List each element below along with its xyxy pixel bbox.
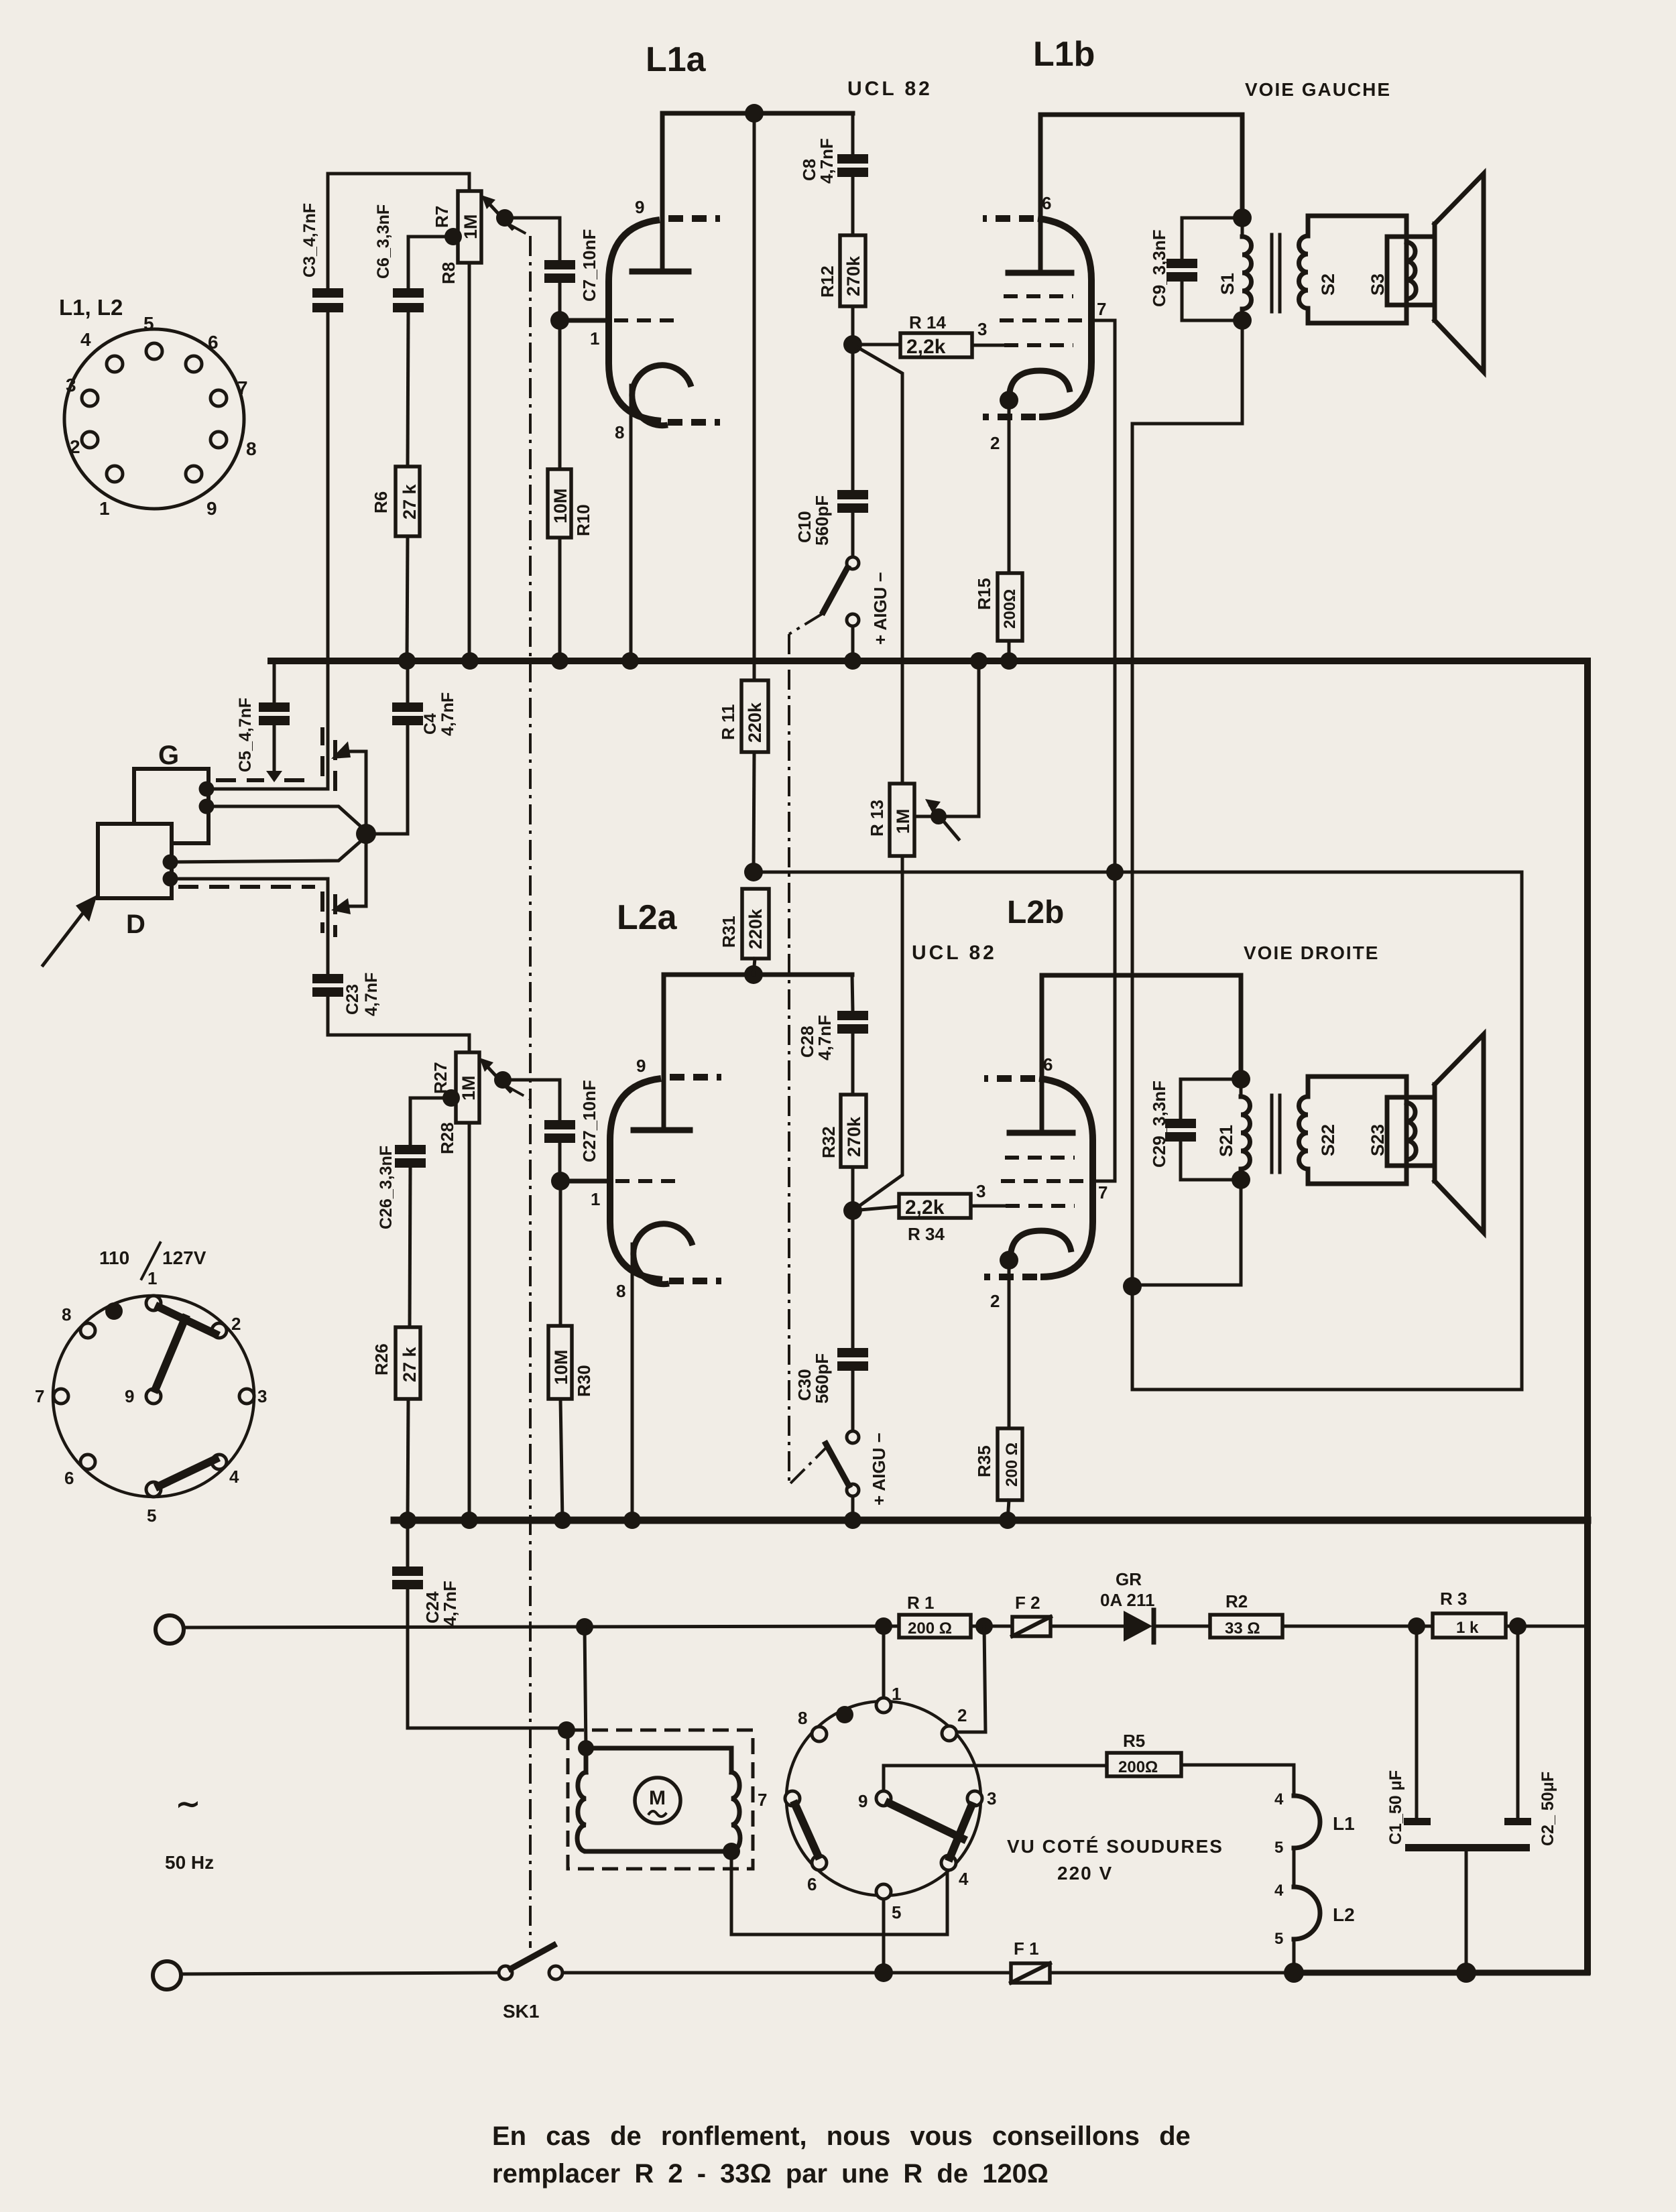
winding S23 — [1385, 1097, 1390, 1166]
svg-text:1: 1 — [590, 328, 599, 349]
svg-text:7: 7 — [1097, 299, 1106, 319]
svg-text:6: 6 — [1042, 193, 1051, 213]
wire pin7 screen line (to y1301 and L2b pin7) — [1091, 320, 1115, 1181]
capacitor C4 — [392, 702, 423, 712]
node L2a plate wire / R31 — [744, 965, 763, 984]
diode GR OA211 — [1124, 1611, 1152, 1642]
wire wiper to C7 — [505, 218, 560, 260]
svg-text:8: 8 — [798, 1708, 807, 1728]
node R32/R34 junction — [843, 1201, 862, 1220]
wire R14 to pin3 L1b — [972, 344, 1004, 347]
capacitor C1 50uF — [1415, 1626, 1419, 1818]
node C1 top — [1408, 1617, 1425, 1635]
svg-text:7: 7 — [758, 1790, 767, 1810]
wire C23 line (D to C23) — [326, 879, 330, 974]
switch SK1 — [499, 1966, 512, 1979]
wire D pin a to fork — [170, 837, 366, 862]
svg-text:4: 4 — [959, 1869, 969, 1889]
capacitor C8 — [851, 113, 855, 154]
resistor R11 220k — [741, 680, 768, 752]
motor shield dashed box — [568, 1730, 753, 1869]
wire D pin b to C23 line — [170, 877, 328, 881]
svg-text:4,7nF: 4,7nF — [438, 692, 457, 736]
cathode L1b — [1010, 371, 1070, 392]
svg-text:1: 1 — [147, 1268, 157, 1288]
svg-text:6: 6 — [208, 332, 219, 353]
wire mains lower to SK1 — [181, 1973, 499, 1974]
socket 110/127V — [35, 1268, 267, 1526]
transformer core (gauche) — [1270, 235, 1274, 312]
node plate wire junction — [745, 104, 764, 123]
svg-text:R31: R31 — [719, 916, 739, 948]
node fork junction — [356, 824, 376, 844]
svg-text:5: 5 — [892, 1902, 901, 1922]
svg-text:R6: R6 — [371, 491, 391, 513]
node pin7 line on feedback rail — [1106, 863, 1124, 881]
svg-text:110: 110 — [99, 1247, 129, 1268]
svg-text:1M: 1M — [459, 1075, 479, 1101]
svg-text:G: G — [158, 741, 179, 770]
svg-text:C1_50 μF: C1_50 μF — [1386, 1770, 1405, 1845]
arrow to jack D — [43, 908, 87, 965]
svg-text:C3_4,7nF: C3_4,7nF — [300, 203, 319, 278]
svg-text:+ AIGU −: + AIGU − — [869, 1432, 889, 1506]
svg-text:10M: 10M — [550, 488, 571, 524]
svg-text:5: 5 — [143, 313, 154, 334]
wire tap to C6 — [408, 237, 453, 288]
node cathode L2b — [1000, 1251, 1018, 1270]
wire C6 to R6 — [408, 312, 408, 467]
svg-text:C2_ 50μF: C2_ 50μF — [1539, 1772, 1557, 1846]
selector contact arrow (upper) — [331, 741, 351, 759]
wire mains upper — [184, 1626, 899, 1627]
node G pin a — [199, 782, 215, 797]
svg-text:10M: 10M — [551, 1349, 571, 1385]
svg-text:R5: R5 — [1123, 1731, 1145, 1751]
resistor R35 200ohm — [1008, 1260, 1011, 1428]
bus junction dots lower — [399, 1512, 416, 1529]
wire L2b plate top — [1042, 975, 1241, 1133]
wire upper contact to fork — [344, 751, 366, 834]
svg-text:remplacer R 2 - 33Ω par une R: remplacer R 2 - 33Ω par une R de 120Ω — [492, 2159, 1049, 2189]
cathode L1a — [632, 365, 691, 426]
potentiometer R27/R28 1M — [468, 1123, 471, 1520]
svg-text:220k: 220k — [745, 908, 766, 949]
svg-text:9: 9 — [858, 1791, 867, 1811]
wire R11 from plate junction (crosses bus) — [753, 113, 756, 680]
wire junction diagonal to R13 (crosses bus) — [853, 345, 902, 784]
socket 220V — [758, 1684, 996, 1922]
C1/C2 common plate — [1405, 1844, 1530, 1851]
node motor feed — [576, 1618, 593, 1636]
svg-text:4,7nF: 4,7nF — [817, 138, 837, 184]
svg-text:SK1: SK1 — [503, 2001, 539, 2022]
primary winding S21 — [1240, 1079, 1243, 1097]
node R11/R31 tap — [744, 863, 763, 881]
primary winding S1 — [1241, 218, 1244, 237]
index dot — [836, 1706, 853, 1723]
node pin1 grid L1a — [550, 311, 569, 330]
wiper arrow R7 — [487, 201, 512, 229]
svg-text:R 1: R 1 — [907, 1593, 934, 1613]
svg-text:L2: L2 — [1333, 1904, 1355, 1925]
node D pin a — [163, 855, 178, 870]
capacitor C23 — [312, 974, 343, 983]
motor winding right — [731, 1772, 740, 1851]
resistor R1 200ohm — [899, 1615, 971, 1638]
node secondaries common — [1123, 1277, 1142, 1296]
capacitor C3 — [312, 288, 343, 298]
input jack G — [134, 769, 208, 843]
svg-text:4,7nF: 4,7nF — [362, 973, 381, 1016]
wire pin9 to R5 — [884, 1766, 1107, 1791]
wire L1b plate top — [1040, 115, 1242, 273]
svg-text:5: 5 — [147, 1506, 156, 1526]
plate L2a — [634, 1127, 690, 1133]
svg-text:560pF: 560pF — [812, 495, 832, 546]
svg-text:27 k: 27 k — [400, 483, 420, 519]
svg-text:C27_10nF: C27_10nF — [579, 1080, 599, 1162]
wire C3 to R7 top — [328, 174, 469, 191]
capacitor C29 3,3nF — [1181, 1079, 1241, 1119]
svg-text:C5_4,7nF: C5_4,7nF — [236, 698, 255, 772]
svg-text:R 14: R 14 — [909, 312, 946, 332]
svg-text:2: 2 — [990, 433, 1000, 453]
wire junction diagonal to R13 line — [853, 872, 902, 1211]
svg-text:∼: ∼ — [176, 1788, 200, 1821]
capacitor C6 — [393, 288, 424, 298]
svg-text:1: 1 — [99, 498, 110, 519]
svg-text:R32: R32 — [819, 1126, 839, 1158]
node S21 top — [1232, 1070, 1250, 1089]
svg-text:UCL 82: UCL 82 — [847, 78, 933, 100]
svg-text:1M: 1M — [893, 808, 913, 834]
svg-text:8: 8 — [246, 438, 257, 459]
node D pin b — [163, 871, 178, 887]
svg-text:2: 2 — [990, 1291, 1000, 1311]
rotor straps 1-2-9 and 5-4 — [159, 1307, 215, 1334]
svg-text:R8: R8 — [438, 262, 459, 284]
choke L1 — [1294, 1796, 1320, 1848]
capacitor C26 — [395, 1145, 426, 1154]
wire motor feed down — [585, 1627, 586, 1748]
svg-text:R2: R2 — [1225, 1591, 1248, 1611]
wire pin5 down — [882, 1899, 886, 1973]
capacitor C10 560pF — [837, 490, 868, 499]
svg-text:5: 5 — [1274, 1930, 1283, 1948]
svg-text:VU COTÉ SOUDURES: VU COTÉ SOUDURES — [1007, 1836, 1223, 1857]
resistor R14 2,2k — [900, 333, 972, 357]
bus junction dots upper — [398, 652, 416, 670]
mains input terminal (upper) — [156, 1615, 184, 1644]
node pin5 / SK1 wire — [874, 1963, 893, 1982]
svg-text:3: 3 — [987, 1788, 996, 1808]
bottom thick wire — [1294, 1970, 1588, 1976]
svg-text:R28: R28 — [437, 1122, 457, 1154]
node R27 tap — [442, 1089, 460, 1107]
wire motor to pin4 — [731, 1851, 947, 1934]
svg-text:7: 7 — [35, 1386, 44, 1406]
wire L2a plate top — [664, 975, 852, 1130]
wire G pin b to fork — [206, 806, 366, 831]
capacitor C28 — [852, 975, 853, 1011]
svg-text:2: 2 — [957, 1705, 967, 1725]
svg-text:1: 1 — [892, 1684, 901, 1704]
svg-text:R10: R10 — [573, 504, 593, 536]
svg-text:R 11: R 11 — [718, 704, 738, 741]
svg-text:En cas de ronflement, nous vou: En cas de ronflement, nous vous conseill… — [492, 2122, 1191, 2151]
wire pin1 up — [882, 1626, 886, 1698]
svg-text:9: 9 — [635, 197, 644, 217]
svg-text:6: 6 — [807, 1874, 817, 1894]
resistor R15 200ohm — [1008, 400, 1011, 573]
plate L2b — [1010, 1130, 1073, 1136]
svg-text:R 13: R 13 — [867, 800, 887, 837]
capacitor C7 — [544, 260, 575, 269]
svg-text:4: 4 — [229, 1467, 239, 1487]
wiper arrow R27 — [485, 1064, 510, 1091]
svg-text:200Ω: 200Ω — [1118, 1758, 1158, 1776]
svg-text:S3: S3 — [1368, 273, 1388, 296]
svg-text:C6_3,3nF: C6_3,3nF — [374, 204, 393, 279]
wire cathode L2a to bus — [631, 1244, 634, 1520]
wiper R13 — [914, 661, 979, 816]
svg-text:3: 3 — [66, 375, 76, 395]
svg-text:R15: R15 — [974, 578, 994, 610]
node S1 top — [1233, 208, 1252, 227]
secondary winding S2 + box — [1308, 216, 1406, 323]
node pin1 grid L2a — [551, 1172, 570, 1190]
svg-text:M: M — [649, 1787, 666, 1809]
svg-text:C7_10nF: C7_10nF — [579, 229, 599, 302]
wire R5 to chokes — [1181, 1765, 1294, 1796]
right bus vertical — [1584, 661, 1591, 1971]
svg-text:3: 3 — [257, 1386, 267, 1406]
node chokes to bottom wire — [1284, 1963, 1304, 1983]
svg-text:C29_3,3nF: C29_3,3nF — [1149, 1081, 1169, 1168]
svg-text:R12: R12 — [817, 265, 837, 298]
selector contact arrow (lower) — [331, 898, 351, 914]
switch AIGU (upper) — [847, 557, 859, 569]
envelope L2b — [1039, 1079, 1093, 1277]
svg-text:5: 5 — [1274, 1839, 1283, 1857]
svg-text:560pF: 560pF — [812, 1353, 832, 1404]
resistor R31 220k — [742, 889, 769, 959]
wire L1a plate top — [662, 113, 853, 271]
cathode L2a — [634, 1224, 693, 1284]
grids L2b — [1005, 1156, 1075, 1160]
node R12/R14 junction — [843, 335, 862, 354]
svg-text:L1b: L1b — [1033, 35, 1095, 74]
svg-text:127V: 127V — [162, 1247, 206, 1268]
svg-text:4,7nF: 4,7nF — [440, 1581, 460, 1626]
fuse F1 — [1011, 1963, 1050, 1983]
wire SK1 to F1 — [562, 1971, 1011, 1975]
capacitor C24 — [406, 1520, 410, 1566]
svg-text:7: 7 — [1098, 1182, 1108, 1203]
wire R34 to pin3 L2b — [971, 1205, 1006, 1208]
resistor R6 27k — [396, 467, 420, 536]
svg-text:C26_3,3nF: C26_3,3nF — [377, 1146, 396, 1229]
svg-text:200 Ω: 200 Ω — [1003, 1442, 1021, 1487]
wire S21 bottom to common node — [1132, 1180, 1241, 1285]
motor M — [635, 1778, 680, 1823]
svg-text:2: 2 — [231, 1314, 241, 1334]
svg-text:L1, L2: L1, L2 — [59, 295, 123, 320]
wire R6 to bus — [407, 536, 408, 661]
node R7 wiper — [496, 209, 514, 227]
svg-text:R27: R27 — [430, 1062, 451, 1094]
svg-text:27 k: 27 k — [400, 1346, 420, 1382]
ganged-control link R7 — [508, 224, 530, 236]
svg-text:C23: C23 — [343, 984, 362, 1015]
resistor R34 2,2k — [899, 1194, 971, 1218]
wire common plate to bottom — [1465, 1851, 1468, 1973]
svg-text:S2: S2 — [1318, 273, 1338, 296]
wire C3 line (G to C3, crosses bus) — [326, 312, 330, 789]
svg-text:UCL 82: UCL 82 — [912, 942, 997, 964]
wire pin7 L2b — [1093, 1180, 1115, 1183]
wire junction down to C30 — [851, 1211, 855, 1348]
svg-text:S1: S1 — [1217, 273, 1238, 295]
capacitor C27 — [544, 1120, 575, 1129]
loudspeaker (voie gauche) — [1433, 224, 1437, 320]
node R1 left / pin1 — [875, 1617, 892, 1635]
svg-text:8: 8 — [615, 422, 624, 442]
wire pin2 up — [957, 1626, 985, 1732]
node motor winding top — [578, 1740, 594, 1756]
motor winding left — [577, 1772, 586, 1851]
resistor R26 27k — [396, 1327, 420, 1399]
svg-text:R35: R35 — [974, 1445, 994, 1477]
wire grid L1a — [560, 318, 607, 323]
potentiometer R7/R8 1M — [468, 263, 471, 661]
svg-text:2,2k: 2,2k — [906, 336, 946, 358]
wire feedback rail y1301 — [754, 872, 1522, 1390]
svg-text:C4: C4 — [421, 713, 440, 735]
node R1 right / pin2 — [975, 1617, 993, 1635]
svg-text:2: 2 — [70, 436, 80, 457]
svg-text:9: 9 — [125, 1386, 134, 1406]
resistor R32 270k — [841, 1095, 866, 1167]
grids L1b — [1004, 294, 1073, 298]
pins 1-8 + center 9 — [876, 1698, 891, 1713]
svg-text:50 Hz: 50 Hz — [165, 1852, 214, 1873]
contact arrow at C5 — [266, 771, 282, 782]
wire wiper to C27 — [503, 1080, 560, 1120]
svg-text:L2a: L2a — [617, 898, 678, 937]
envelope L1b — [1038, 219, 1091, 417]
svg-text:L2b: L2b — [1007, 895, 1064, 930]
wire G pin a to C3 line — [206, 788, 328, 791]
plate L1a — [632, 269, 689, 275]
svg-text:C9_3,3nF: C9_3,3nF — [1149, 229, 1169, 307]
svg-text:3: 3 — [977, 319, 987, 339]
wire S21 top — [1239, 975, 1244, 1079]
wire junction down to C10 — [851, 345, 855, 490]
svg-text:6: 6 — [1043, 1054, 1053, 1074]
svg-text:1M: 1M — [461, 214, 481, 239]
svg-text:R30: R30 — [574, 1365, 594, 1397]
svg-text:220k: 220k — [745, 702, 765, 743]
svg-text:1 k: 1 k — [1456, 1619, 1479, 1637]
secondary winding S22 + box — [1308, 1077, 1406, 1184]
mains input terminal (lower) — [153, 1961, 181, 1989]
svg-text:1: 1 — [591, 1189, 600, 1209]
svg-text:270k: 270k — [843, 255, 863, 296]
svg-text:4: 4 — [1274, 1790, 1284, 1808]
svg-text:R7: R7 — [432, 206, 452, 228]
svg-text:L1a: L1a — [646, 40, 707, 79]
capacitor C2 50uF — [1516, 1626, 1520, 1818]
node C2 top — [1509, 1617, 1527, 1635]
capacitor C30 560pF — [837, 1348, 868, 1357]
shield dashed wire (D side) — [178, 885, 315, 889]
wire fork to C4 — [366, 725, 408, 834]
motor winding frame — [586, 1748, 731, 1772]
upper B+ bus — [271, 658, 1588, 664]
wire S1 bottom to feedback line — [1132, 320, 1242, 1390]
svg-text:8: 8 — [62, 1304, 71, 1325]
svg-text:9: 9 — [636, 1056, 646, 1076]
node R27 wiper — [494, 1071, 512, 1089]
svg-text:VOIE DROITE: VOIE DROITE — [1244, 942, 1379, 963]
svg-text:9: 9 — [206, 498, 217, 519]
resistor R12 270k — [840, 235, 865, 306]
tube socket diagram L1,L2 (top-left) — [59, 295, 257, 519]
input jack D — [98, 824, 172, 898]
node motor shield corner — [558, 1721, 575, 1739]
wire junction to R14 — [853, 343, 900, 347]
svg-text:270k: 270k — [844, 1116, 864, 1157]
ganged control axis (volume/switch) — [529, 236, 532, 1948]
loudspeaker (voie droite) — [1433, 1085, 1437, 1181]
wire F1 to chokes — [1050, 1971, 1294, 1975]
svg-text:8: 8 — [616, 1281, 625, 1301]
svg-text:R26: R26 — [371, 1343, 392, 1375]
svg-text:200 Ω: 200 Ω — [908, 1619, 952, 1638]
svg-text:GR: GR — [1116, 1569, 1142, 1589]
node G pin b — [199, 799, 215, 814]
envelope L2a — [610, 1079, 662, 1280]
node S1 bottom — [1233, 311, 1252, 330]
node motor winding bottom right — [723, 1843, 740, 1860]
svg-text:R 34: R 34 — [908, 1224, 945, 1244]
svg-text:2,2k: 2,2k — [905, 1196, 945, 1219]
svg-text:4: 4 — [1274, 1882, 1284, 1900]
svg-text:D: D — [126, 910, 145, 939]
wire lower contact to fork — [344, 834, 366, 906]
svg-text:4,7nF: 4,7nF — [815, 1015, 835, 1060]
svg-text:VOIE GAUCHE: VOIE GAUCHE — [1245, 79, 1391, 100]
wire tap to C26 — [410, 1098, 451, 1145]
svg-text:+ AIGU −: + AIGU − — [870, 572, 890, 645]
capacitor C9 3,3nF — [1182, 218, 1242, 259]
ganged link between AIGU switches — [789, 634, 827, 1485]
resistor R10 10M — [558, 320, 562, 469]
cathode L2b — [1011, 1231, 1071, 1252]
svg-text:4: 4 — [80, 329, 91, 350]
resistor R5 200ohm — [1107, 1753, 1181, 1776]
svg-text:S22: S22 — [1318, 1124, 1338, 1156]
svg-text:3: 3 — [976, 1181, 985, 1201]
svg-text:L1: L1 — [1333, 1813, 1355, 1834]
plate L1b — [1008, 270, 1071, 276]
svg-text:7: 7 — [237, 377, 248, 398]
potentiometer R13 1M — [890, 784, 914, 856]
shield dashed wire (G side) — [216, 778, 264, 782]
ganged-control link R27 — [506, 1086, 530, 1099]
